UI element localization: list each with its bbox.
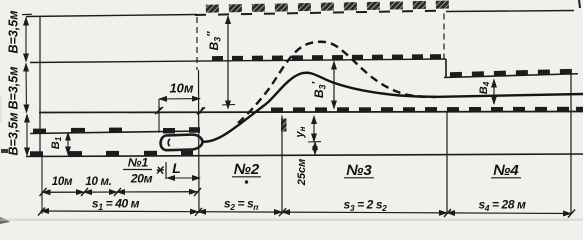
svg-text:№3: №3 xyxy=(346,162,372,179)
svg-text:10м: 10м xyxy=(52,176,73,188)
corridor top line right section with blocks xyxy=(444,69,578,78)
svg-text:20м: 20м xyxy=(130,172,153,186)
bottom road edge line xyxy=(26,154,583,157)
svg-text:№4: №4 xyxy=(493,162,519,179)
B3'' dimension xyxy=(227,16,229,109)
X ticks on lane boundary xyxy=(155,107,205,114)
step connector at x=446 xyxy=(445,59,447,78)
svg-text:L: L xyxy=(172,160,181,176)
blocks on lane 1/2 boundary xyxy=(212,54,441,61)
lane 1/2 boundary line xyxy=(30,59,446,63)
svg-text:В=3,5м: В=3,5м xyxy=(7,113,21,156)
top road edge line, left part xyxy=(26,15,197,17)
left width dimension chain xyxy=(25,18,27,62)
solid trajectory curve xyxy=(203,73,583,142)
section 3 start peg xyxy=(281,119,287,132)
yn dimension and 25cm dimension xyxy=(313,116,315,142)
B3' dimension xyxy=(333,62,335,109)
10 m dimension above car xyxy=(158,99,160,133)
dashed trajectory curve xyxy=(238,42,436,123)
car (test vehicle) xyxy=(161,135,203,151)
svg-text:№1: №1 xyxy=(128,156,149,170)
corridor B1 top line with blocks xyxy=(30,131,200,134)
svg-text:№2: №2 xyxy=(234,161,260,178)
top-right corner tick xyxy=(579,0,580,8)
svg-text:10 м.: 10 м. xyxy=(85,176,111,188)
svg-text:10м: 10м xyxy=(169,81,193,96)
svg-text:В=3,5м: В=3,5м xyxy=(7,11,21,54)
top road edge line, right part xyxy=(446,11,574,12)
blocks on bottom road edge (left corridor) xyxy=(30,151,193,157)
s dimension line xyxy=(41,210,198,213)
L dimension under car xyxy=(165,162,167,179)
svg-text:25см: 25см xyxy=(296,159,308,187)
lane 2/3 boundary line xyxy=(39,112,583,113)
vertical boundary/extension lines xyxy=(39,16,41,157)
bottom-left corner smudge xyxy=(0,217,10,224)
svg-text:В=3,5м: В=3,5м xyxy=(7,67,21,110)
blocks on lane 2/3 boundary (from section 3 start to right edge) xyxy=(271,107,583,113)
B1 dimension xyxy=(67,133,69,155)
bottom chain dimensions 10/10/20 xyxy=(43,191,198,194)
dashed extension line x=444 (top) xyxy=(443,14,445,59)
dashed extension line x=197 (top) xyxy=(196,17,198,70)
top peg row (hatched blocks with dashes), x 190..445 xyxy=(195,1,449,15)
B4 dimension xyxy=(493,80,495,105)
